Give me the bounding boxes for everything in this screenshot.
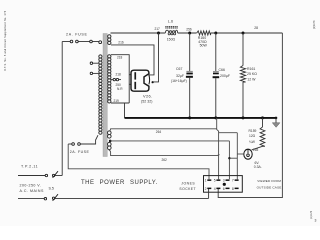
svg-text:OUTSIDE CASE: OUTSIDE CASE bbox=[257, 186, 282, 190]
svg-text:216: 216 bbox=[118, 41, 124, 45]
svg-text:6: 6 bbox=[223, 187, 225, 191]
svg-text:3: 3 bbox=[315, 219, 317, 223]
label 2A FUSE (lower) bbox=[70, 150, 90, 154]
label 216 bbox=[118, 41, 124, 45]
label 200-250 V. bbox=[20, 183, 42, 187]
junction pin3 to pin7 link bbox=[228, 157, 230, 159]
svg-text:200µF: 200µF bbox=[220, 74, 230, 78]
svg-text:262: 262 bbox=[162, 158, 168, 162]
wire mains pole 1 bbox=[18, 175, 62, 177]
svg-text:(52 32): (52 32) bbox=[141, 100, 152, 104]
label 200uF bbox=[220, 74, 230, 78]
L6 iron core bars bbox=[165, 27, 177, 28]
wire bus drop to socket pin 5 bbox=[217, 118, 219, 179]
label VIEWED FROM bbox=[257, 179, 281, 183]
wire 219 bbox=[111, 102, 129, 104]
svg-text:2A. FUSE: 2A. FUSE bbox=[66, 32, 88, 36]
HT centre tap link 250 N.R bbox=[111, 78, 121, 80]
svg-text:264: 264 bbox=[156, 130, 162, 134]
junction C67 bottom bbox=[188, 116, 191, 119]
wire 262 bbox=[109, 150, 220, 156]
svg-text:¼W: ¼W bbox=[249, 140, 256, 144]
capacitor C67 bbox=[186, 33, 193, 118]
label 32uF bbox=[176, 74, 184, 78]
heater centre tap junction bbox=[109, 140, 112, 143]
label 25K ohm bbox=[247, 72, 257, 76]
fuse F2 bbox=[68, 143, 80, 146]
svg-text:256: 256 bbox=[186, 27, 192, 31]
right bottom margin rotated caption bbox=[310, 210, 313, 219]
svg-text:25 KΩ: 25 KΩ bbox=[247, 72, 257, 76]
socket pin 7 bbox=[232, 179, 239, 183]
svg-text:S.5: S.5 bbox=[49, 186, 54, 190]
svg-text:R159: R159 bbox=[249, 129, 257, 133]
label 218 bbox=[117, 55, 123, 59]
svg-text:150Ω: 150Ω bbox=[167, 37, 176, 41]
ground chassis symbol bbox=[272, 117, 280, 128]
svg-text:4: 4 bbox=[214, 187, 216, 191]
socket pin 1 bbox=[205, 179, 212, 183]
label 218 (tap) bbox=[116, 73, 122, 77]
svg-text:7: 7 bbox=[232, 179, 234, 183]
label OUTSIDE CASE bbox=[257, 186, 282, 190]
title THE POWER SUPPLY. bbox=[81, 180, 158, 186]
label R161 bbox=[247, 67, 255, 71]
svg-text:T.P.2,11: T.P.2,11 bbox=[21, 165, 38, 169]
socket pin 3 bbox=[223, 179, 230, 183]
svg-text:(1)1173: (1)1173 bbox=[310, 210, 313, 219]
wire 218 to anodes bbox=[111, 55, 131, 103]
svg-text:265: 265 bbox=[253, 148, 259, 152]
svg-text:219: 219 bbox=[114, 99, 120, 103]
label 262 bbox=[162, 158, 168, 162]
label 2A FUSE (top) bbox=[66, 32, 88, 36]
switch S.5 pole 2 bbox=[44, 194, 58, 201]
label N.R bbox=[117, 87, 123, 91]
svg-text:50W: 50W bbox=[200, 44, 208, 48]
label A.C. MAINS bbox=[20, 189, 44, 193]
rectifier V26 envelope bbox=[131, 70, 149, 91]
right top margin rotated caption bbox=[313, 20, 316, 29]
svg-text:12Ω: 12Ω bbox=[249, 134, 256, 138]
label 256 bbox=[186, 27, 192, 31]
wire link to socket pin 7 bbox=[219, 133, 238, 180]
svg-text:2: 2 bbox=[205, 187, 207, 191]
svg-text:218: 218 bbox=[117, 55, 123, 59]
heater winding lower half bbox=[108, 142, 112, 149]
wire HT output drop to socket pin 4 bbox=[218, 33, 282, 198]
capacitor C66 bbox=[213, 33, 220, 118]
socket pin 2 bbox=[205, 187, 212, 191]
svg-text:A.C. MAINS: A.C. MAINS bbox=[20, 189, 44, 193]
svg-text:VIEWED FROM: VIEWED FROM bbox=[257, 179, 281, 183]
svg-text:1: 1 bbox=[205, 179, 207, 183]
left margin rotated caption bbox=[4, 10, 7, 71]
junction C66 top bbox=[214, 32, 217, 35]
label 265 bbox=[253, 148, 259, 152]
label SOCKET bbox=[179, 187, 196, 191]
V26 filament arc bbox=[148, 75, 151, 85]
wire mains pole 2 bbox=[18, 197, 209, 199]
svg-text:(16+16µF): (16+16µF) bbox=[171, 79, 187, 83]
transformer T1 core bbox=[103, 34, 107, 157]
wire socket pin 2 to mains bbox=[208, 189, 210, 198]
V26 anode 1 bbox=[134, 72, 136, 79]
bottom-right corner mark bbox=[315, 219, 317, 223]
label 12 ohm bbox=[249, 134, 256, 138]
V26 anode 2 bbox=[134, 82, 136, 89]
rectifier filament winding (top secondary) bbox=[108, 35, 111, 45]
svg-text:218: 218 bbox=[116, 73, 122, 77]
junction node 217 bbox=[157, 32, 160, 35]
fuse F1 bbox=[62, 40, 101, 43]
svg-text:32µF: 32µF bbox=[176, 74, 184, 78]
junction R161 top bbox=[242, 32, 245, 35]
socket pin 4 bbox=[214, 187, 221, 191]
HT bus wire bbox=[125, 117, 277, 119]
label R160 bbox=[198, 36, 206, 40]
label (52 32) bbox=[141, 100, 152, 104]
label R159 bbox=[249, 129, 257, 133]
socket key dot bbox=[223, 183, 226, 186]
HT secondary winding bbox=[108, 55, 111, 103]
resistor R161 bbox=[240, 33, 245, 118]
switch S.5 pole 1 bbox=[45, 171, 58, 178]
label 250 bbox=[116, 83, 122, 87]
svg-text:R.T.S. No. 5 and Circuit Suppl: R.T.S. No. 5 and Circuit Supplement No. … bbox=[4, 10, 7, 71]
label 150 ohm bbox=[167, 37, 176, 41]
label C67 bbox=[176, 67, 182, 71]
wire heater centre tap to socket pin 3 bbox=[110, 141, 229, 179]
wire fuse 2 return to socket pin 1 bbox=[68, 144, 209, 179]
socket pin 5 bbox=[214, 179, 221, 183]
label L6 bbox=[168, 19, 173, 23]
primary tap terminal lower bbox=[90, 72, 99, 74]
svg-text:JONES: JONES bbox=[181, 181, 195, 185]
label T.P.2,11 bbox=[21, 165, 38, 169]
svg-text:L.6: L.6 bbox=[168, 19, 173, 23]
label 0.3A bbox=[254, 165, 262, 169]
wire R160 to corner node 28 bbox=[211, 32, 283, 34]
Jones socket outline bbox=[204, 176, 243, 193]
svg-text:V26.: V26. bbox=[143, 94, 153, 99]
label 264 bbox=[156, 130, 162, 134]
junction node 256 / C67 top bbox=[188, 32, 191, 35]
label 50W bbox=[200, 44, 208, 48]
label V26 bbox=[143, 94, 153, 99]
transformer primary winding bbox=[99, 55, 102, 134]
svg-text:12 W: 12 W bbox=[247, 78, 256, 82]
label 12W bbox=[247, 78, 256, 82]
wire primary bottom to fuse 2 bbox=[80, 135, 98, 144]
svg-text:2A. FUSE: 2A. FUSE bbox=[70, 150, 90, 154]
svg-text:8: 8 bbox=[232, 187, 234, 191]
wire node 217 (top output wire) bbox=[111, 32, 166, 34]
svg-text:0.3A.: 0.3A. bbox=[254, 165, 262, 169]
wire pin3 to pin7 link bbox=[229, 157, 237, 159]
svg-text:N.R: N.R bbox=[117, 87, 123, 91]
svg-text:SOCKET: SOCKET bbox=[179, 187, 196, 191]
svg-text:217: 217 bbox=[155, 27, 161, 31]
resistor R159 bbox=[252, 118, 265, 150]
label 1/4 W bbox=[249, 140, 256, 144]
label 470 ohm bbox=[198, 40, 207, 44]
svg-text:C66: C66 bbox=[219, 68, 225, 72]
junction R159 top bbox=[261, 116, 264, 119]
primary tap terminal upper bbox=[90, 62, 99, 64]
wire riser to fuse 1 bbox=[61, 42, 63, 176]
wire 217 drop to filament bbox=[152, 33, 159, 83]
label (16+16uF) bbox=[171, 79, 187, 83]
svg-text:R161: R161 bbox=[247, 67, 255, 71]
wire L6 to node 256 bbox=[178, 32, 197, 34]
svg-text:C67: C67 bbox=[176, 67, 182, 71]
svg-text:(1)1173: (1)1173 bbox=[313, 20, 316, 29]
socket pin 8 bbox=[232, 187, 239, 191]
label C66 bbox=[219, 68, 225, 72]
label JONES bbox=[181, 181, 195, 185]
label 28 bbox=[254, 26, 258, 30]
label 219 bbox=[114, 99, 120, 103]
pilot lamp bbox=[237, 149, 252, 159]
resistor R160 bbox=[197, 31, 211, 35]
heater winding upper half bbox=[108, 131, 112, 138]
svg-text:5: 5 bbox=[214, 179, 216, 183]
svg-text:3: 3 bbox=[223, 179, 225, 183]
svg-text:200-250 V.: 200-250 V. bbox=[20, 183, 42, 187]
junction C66 bottom bbox=[214, 116, 217, 119]
junction R161 bottom bbox=[242, 116, 245, 119]
label 6V. bbox=[255, 161, 260, 165]
choke L6 humps bbox=[165, 30, 177, 35]
wire 219 to HT bus bbox=[124, 103, 126, 118]
svg-text:THE POWER SUPPLY.: THE POWER SUPPLY. bbox=[81, 180, 158, 186]
label S.5 bbox=[49, 186, 54, 190]
wire 264 bbox=[109, 129, 217, 131]
label 217 bbox=[155, 27, 161, 31]
svg-text:28: 28 bbox=[254, 26, 258, 30]
wire 216 bbox=[111, 45, 154, 75]
socket pin 6 bbox=[223, 187, 230, 191]
